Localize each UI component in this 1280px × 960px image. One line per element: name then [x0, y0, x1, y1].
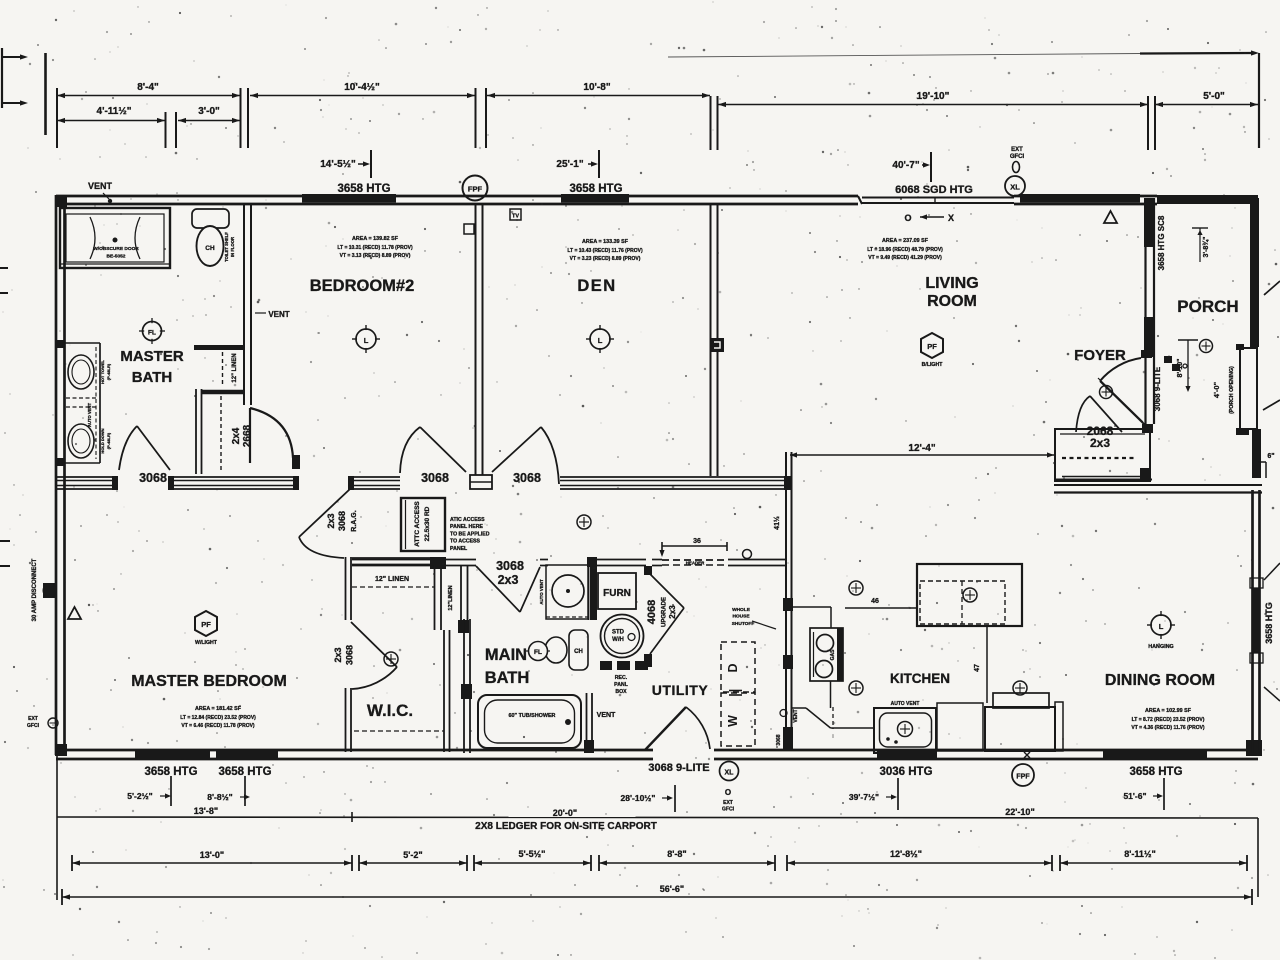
porch dim 3'-8 3/4 rotated — [1192, 227, 1208, 229]
main bath west wall — [463, 619, 465, 753]
wall triangle marker — [68, 607, 81, 619]
top dimension row 1: 19'-10" — [718, 104, 1148, 106]
svg-text:36: 36 — [693, 538, 701, 545]
svg-text:L: L — [1159, 622, 1164, 631]
porch dim 8'-10 rotated — [1178, 339, 1198, 341]
svg-text:B/LIGHT: B/LIGHT — [922, 362, 944, 368]
svg-text:VENT: VENT — [88, 181, 113, 191]
left margin cut marks — [0, 267, 8, 269]
porch top wall — [1157, 195, 1258, 204]
svg-text:VT = 4.36 (RECD) 11.76 (PROV): VT = 4.36 (RECD) 11.76 (PROV) — [1131, 725, 1205, 731]
master bath vanity — [99, 343, 101, 463]
svg-text:MAIN: MAIN — [485, 646, 527, 664]
utility cased opening — [644, 566, 652, 575]
svg-text:8'-10": 8'-10" — [1177, 359, 1184, 378]
svg-text:R.A.G.: R.A.G. — [351, 510, 358, 531]
svg-text:12" LINEN: 12" LINEN — [375, 576, 409, 583]
living room triangle marker — [1104, 211, 1117, 223]
svg-text:3658 HTG: 3658 HTG — [1129, 766, 1182, 778]
svg-text:AREA = 102.99 SF: AREA = 102.99 SF — [1145, 708, 1192, 714]
hall north wall band — [56, 476, 117, 478]
svg-text:30 AMP DISCONNECT: 30 AMP DISCONNECT — [32, 558, 38, 621]
svg-text:2668: 2668 — [242, 424, 253, 447]
den light symbol — [590, 329, 610, 349]
svg-text:41½: 41½ — [773, 516, 781, 530]
dim 36 header — [662, 545, 727, 547]
top dimension row 1: 8'-4" — [56, 88, 58, 148]
svg-text:L: L — [364, 336, 369, 345]
svg-text:W/OBSCURE DOOR: W/OBSCURE DOOR — [93, 246, 139, 252]
top dimension row 2: 3'-0" — [178, 120, 240, 122]
svg-text:25'-1": 25'-1" — [556, 159, 583, 170]
svg-text:TO BE APPLIED: TO BE APPLIED — [450, 531, 490, 537]
washer dryer dashed boxes — [721, 642, 755, 692]
svg-text:8'-8½": 8'-8½" — [207, 792, 232, 802]
svg-text:5'-0": 5'-0" — [1203, 91, 1225, 102]
svg-text:HOT TOWEL: HOT TOWEL — [100, 359, 105, 383]
svg-text:3658 HTG: 3658 HTG — [337, 183, 390, 195]
svg-text:DINING ROOM: DINING ROOM — [1105, 672, 1215, 689]
svg-text:5'-2½": 5'-2½" — [127, 791, 152, 801]
bedroom2 door swing — [400, 427, 420, 473]
svg-text:8'-8": 8'-8" — [667, 849, 686, 859]
porch right exterior wall — [1250, 198, 1259, 347]
svg-text:FURN: FURN — [603, 588, 631, 599]
master bath closet wall — [202, 390, 244, 395]
svg-text:6": 6" — [1267, 453, 1274, 460]
svg-text:EXT: EXT — [723, 800, 733, 806]
header dashed portion — [662, 559, 728, 561]
svg-text:XL: XL — [725, 770, 735, 777]
svg-text:TV: TV — [512, 214, 519, 220]
kitchen sink unit — [874, 708, 936, 753]
svg-text:PANEL: PANEL — [450, 546, 468, 552]
svg-text:GFCI: GFCI — [722, 807, 735, 813]
2068 door arch — [1076, 396, 1090, 432]
svg-text:BOX: BOX — [615, 689, 627, 695]
foyer door — [1100, 358, 1141, 381]
foyer/porch divider wall with windows — [1144, 198, 1146, 424]
bottom dimension row — [71, 855, 73, 871]
ledger line — [57, 817, 1258, 818]
svg-text:2X8 LEDGER FOR ON-SITE CARPORT: 2X8 LEDGER FOR ON-SITE CARPORT — [475, 821, 657, 832]
svg-text:HEADER: HEADER — [686, 561, 705, 566]
svg-text:(P-48LR): (P-48LR) — [106, 432, 111, 449]
svg-text:ATTC ACCESS: ATTC ACCESS — [414, 501, 421, 547]
svg-text:12'-8½": 12'-8½" — [890, 849, 922, 859]
master bath linen shelf — [194, 345, 243, 350]
window bar 3658 HTG den — [561, 194, 629, 203]
dining hutch — [985, 707, 1055, 751]
svg-text:22.5x30 RD: 22.5x30 RD — [424, 506, 431, 541]
FPF circle bottom — [1012, 764, 1034, 786]
svg-text:ROOM: ROOM — [927, 293, 977, 310]
svg-text:EXT: EXT — [28, 716, 38, 722]
svg-text:20'-0": 20'-0" — [553, 808, 577, 818]
svg-text:40'-7": 40'-7" — [892, 160, 919, 171]
top dimension row 1: 5'-0" — [1155, 104, 1258, 106]
svg-text:VENT: VENT — [597, 712, 616, 719]
svg-text:3068: 3068 — [345, 645, 355, 665]
svg-text:STD: STD — [612, 630, 625, 636]
svg-text:AUTO VENT: AUTO VENT — [87, 403, 92, 428]
svg-text:4'-11½": 4'-11½" — [97, 106, 132, 117]
window bar 3658 HTG dining right — [1252, 588, 1261, 653]
master bath fan FL symbol — [143, 322, 162, 341]
svg-text:47: 47 — [974, 664, 981, 672]
svg-text:W/H: W/H — [612, 637, 624, 643]
svg-text:12'-4": 12'-4" — [908, 443, 935, 454]
linen closet walls — [434, 566, 436, 630]
svg-text:W: W — [726, 715, 740, 727]
wall den / living room — [710, 205, 712, 476]
svg-text:AREA = 181.42 SF: AREA = 181.42 SF — [195, 706, 242, 712]
door jamb blocks band1 — [112, 476, 118, 490]
svg-text:PORCH: PORCH — [1177, 297, 1238, 316]
svg-text:IN FLOOR: IN FLOOR — [230, 237, 235, 257]
porch break marks right edge — [1264, 563, 1280, 580]
master bath toilet — [192, 209, 229, 228]
2068 2x3 bay — [1055, 429, 1150, 481]
svg-text:60" TUB/SHOWER: 60" TUB/SHOWER — [509, 713, 556, 719]
svg-text:3068: 3068 — [776, 734, 782, 745]
svg-text:PANEL HERE: PANEL HERE — [450, 524, 483, 530]
svg-text:2x3: 2x3 — [1090, 436, 1110, 450]
porch outlet — [1200, 340, 1213, 353]
svg-text:TO ACCESS: TO ACCESS — [450, 539, 481, 545]
svg-text:BATH: BATH — [485, 669, 530, 687]
svg-text:O: O — [725, 788, 731, 797]
svg-text:3658 HTG: 3658 HTG — [569, 183, 622, 195]
svg-text:LT = 8.72 (RECD) 23.52 (PROV): LT = 8.72 (RECD) 23.52 (PROV) — [1132, 717, 1205, 723]
svg-text:GFCI: GFCI — [1010, 154, 1025, 160]
svg-text:XL: XL — [1010, 183, 1020, 192]
window bar 3658 HTG bedroom2 — [302, 194, 396, 203]
bath/utility north wall band — [352, 559, 476, 561]
svg-text:FPF: FPF — [1016, 774, 1030, 781]
svg-text:(P-48LR): (P-48LR) — [106, 363, 111, 380]
svg-text:VENT: VENT — [268, 310, 289, 319]
svg-text:VT = 9.49 (RECD) 41.29 (PROV): VT = 9.49 (RECD) 41.29 (PROV) — [868, 255, 942, 261]
svg-text:4068: 4068 — [646, 600, 658, 624]
double tick at 240/248 — [240, 88, 242, 148]
svg-text:12"LINEN: 12"LINEN — [448, 585, 454, 610]
svg-text:DEN: DEN — [577, 277, 616, 295]
dining window leader lower — [1264, 687, 1280, 701]
FPF symbol on top wall — [463, 176, 488, 201]
svg-text:W/LIGHT: W/LIGHT — [195, 640, 218, 646]
svg-text:13'-0": 13'-0" — [200, 850, 224, 860]
window bar 3658 HTG master bedroom 2 — [216, 749, 278, 759]
wall right of tub — [586, 693, 588, 753]
svg-text:8'-11½": 8'-11½" — [1124, 849, 1155, 859]
svg-text:W.I.C.: W.I.C. — [367, 701, 413, 720]
svg-text:22'-10": 22'-10" — [1005, 807, 1034, 817]
svg-text:AREA = 139.82 SF: AREA = 139.82 SF — [352, 236, 399, 242]
window sill marks dining right — [1250, 578, 1263, 588]
svg-text:3068: 3068 — [513, 471, 541, 485]
svg-text:O: O — [904, 213, 911, 223]
water heater STD W/H — [601, 615, 644, 658]
svg-text:REC.: REC. — [615, 675, 628, 681]
window bar 3658 HTG dining — [1103, 749, 1207, 759]
svg-text:UTILITY: UTILITY — [652, 682, 709, 698]
svg-text:VT = 3.23 (RECD) 8.89 (PROV): VT = 3.23 (RECD) 8.89 (PROV) — [570, 256, 641, 262]
svg-text:10'-8": 10'-8" — [583, 82, 610, 93]
porch right wall lower — [1252, 429, 1261, 478]
svg-text:FL: FL — [148, 330, 156, 337]
den door swing — [492, 427, 541, 472]
utility back door swing — [645, 707, 686, 750]
top dimension row 1: 10'-4 1/2" — [250, 95, 475, 97]
svg-text:WHOLE: WHOLE — [732, 607, 751, 613]
svg-text:BEDROOM#2: BEDROOM#2 — [310, 277, 415, 295]
master bedroom PF hexagon — [195, 611, 217, 636]
svg-text:13'-8": 13'-8" — [194, 806, 218, 816]
water heater platform bar — [600, 661, 648, 670]
bottom-right corner block — [1246, 740, 1262, 756]
kitchen island counter — [917, 564, 1022, 626]
outlet hall — [577, 515, 591, 529]
main bath door swing V — [476, 566, 520, 612]
porch break mark upper — [1264, 281, 1280, 295]
kitchen outlets — [849, 581, 863, 595]
master bath door swing — [119, 426, 137, 470]
top dimension row 2: 4'-11 1/2" — [57, 120, 165, 122]
svg-text:AREA = 237.09 SF: AREA = 237.09 SF — [882, 238, 929, 244]
svg-text:56'-6": 56'-6" — [660, 884, 684, 894]
left exterior wall — [55, 195, 58, 755]
svg-text:UPGRADE: UPGRADE — [662, 597, 668, 627]
main bath vanity — [546, 565, 588, 619]
svg-text:GFCI: GFCI — [27, 723, 40, 729]
svg-text:5'-2": 5'-2" — [403, 850, 422, 860]
window bar right section — [1020, 194, 1140, 203]
svg-text:3068: 3068 — [421, 471, 449, 485]
svg-text:3068: 3068 — [496, 559, 524, 573]
master bedroom door swing from hall — [299, 489, 350, 537]
outlet box den/living wall — [710, 338, 724, 352]
svg-text:6068 SGD HTG: 6068 SGD HTG — [895, 184, 973, 196]
vent rotated label utility wall — [780, 710, 787, 717]
porch light cluster — [1164, 356, 1172, 363]
XL circle and EXT GFCI bottom — [720, 762, 739, 781]
svg-text:2x3: 2x3 — [668, 605, 677, 619]
svg-text:(PORCH OPENING): (PORCH OPENING) — [1229, 366, 1235, 414]
sliding glass door 6068 top wall — [858, 196, 862, 204]
top-right margin line with arrow — [668, 54, 1140, 58]
dining hanging light symbol — [1151, 615, 1171, 635]
svg-text:D: D — [726, 663, 740, 672]
svg-text:AUTO VENT: AUTO VENT — [891, 701, 920, 707]
wall utility / kitchen — [785, 452, 787, 750]
main bath fan FL — [529, 642, 548, 661]
svg-text:PF: PF — [201, 620, 211, 629]
WIC door swing — [351, 622, 397, 667]
top dimension row 1: 10'-8" — [487, 95, 710, 97]
svg-text:FL: FL — [534, 649, 542, 656]
svg-text:LT = 10.43 (RECD) 11.76 (PROV): LT = 10.43 (RECD) 11.76 (PROV) — [567, 248, 643, 254]
shower master bath — [60, 208, 170, 268]
svg-text:X: X — [948, 213, 954, 223]
svg-text:SHUTOFF: SHUTOFF — [732, 621, 755, 627]
svg-text:LT = 18.96 (RECD) 48.79 (PROV): LT = 18.96 (RECD) 48.79 (PROV) — [867, 247, 943, 253]
wall bath/furnace — [588, 565, 590, 620]
svg-text:19'-10": 19'-10" — [917, 91, 950, 102]
svg-text:3068: 3068 — [337, 511, 347, 531]
main bath toilet — [569, 630, 588, 670]
kitchen counter top edge — [792, 606, 832, 608]
svg-text:PF: PF — [927, 342, 937, 351]
svg-text:2x3: 2x3 — [498, 573, 519, 587]
svg-text:ATIC ACCESS: ATIC ACCESS — [450, 517, 485, 523]
svg-text:14'-5½": 14'-5½" — [320, 159, 356, 170]
stove — [810, 628, 843, 681]
svg-text:28'-10½": 28'-10½" — [621, 793, 656, 803]
outlet circle near header — [743, 550, 752, 559]
svg-text:GAS: GAS — [830, 649, 836, 661]
svg-text:3036 HTG: 3036 HTG — [879, 766, 932, 778]
svg-text:MASTER BEDROOM: MASTER BEDROOM — [131, 673, 287, 690]
furnace FURN box — [598, 573, 636, 609]
svg-text:51'-6": 51'-6" — [1123, 791, 1146, 801]
svg-text:3068 9-LITE: 3068 9-LITE — [1153, 366, 1162, 411]
tub 60 inch — [478, 695, 581, 748]
svg-text:8'-4": 8'-4" — [137, 82, 159, 93]
svg-text:CH: CH — [205, 245, 215, 252]
top-left margin bracket arrows — [1, 48, 3, 108]
svg-text:HANGING: HANGING — [1148, 644, 1173, 650]
svg-text:MASTER: MASTER — [120, 348, 184, 365]
dining right exterior wall — [1251, 490, 1254, 753]
svg-text:4'-0": 4'-0" — [1212, 381, 1221, 398]
svg-text:10'-4½": 10'-4½" — [344, 82, 380, 93]
living PF hexagon — [921, 333, 943, 358]
dim 12'-4 living room width — [790, 454, 1054, 456]
window bar 3036 HTG kitchen — [877, 749, 937, 759]
svg-text:EXT: EXT — [1011, 147, 1023, 153]
svg-text:LIVING: LIVING — [925, 275, 978, 292]
closet door 2668 bedroom2 — [249, 408, 251, 463]
svg-text:BE-5052: BE-5052 — [107, 254, 126, 260]
svg-text:PANL: PANL — [614, 682, 629, 688]
svg-text:FOYER: FOYER — [1074, 347, 1126, 364]
svg-text:39'-7½": 39'-7½" — [849, 792, 879, 802]
porch step mark bottom right — [1258, 461, 1266, 463]
WIC walls — [345, 557, 347, 620]
svg-text:3068: 3068 — [139, 471, 167, 485]
svg-text:3658 HTG: 3658 HTG — [1264, 602, 1274, 644]
counter below stove — [830, 681, 832, 708]
svg-text:TOILET SHELF: TOILET SHELF — [224, 232, 229, 262]
WIC shelf dashed — [354, 730, 444, 732]
svg-text:LT = 10.31 (RECD) 11.78 (PROV): LT = 10.31 (RECD) 11.78 (PROV) — [337, 245, 413, 251]
porch bottom band — [1054, 479, 1152, 481]
svg-text:3068 9-LITE: 3068 9-LITE — [648, 762, 709, 774]
wall master bath / bedroom2 — [243, 205, 245, 405]
svg-text:LT = 12.84 (RECD) 23.52 (PROV): LT = 12.84 (RECD) 23.52 (PROV) — [180, 715, 256, 721]
svg-text:46: 46 — [871, 598, 879, 605]
svg-text:3'-8¾": 3'-8¾" — [1202, 237, 1210, 258]
svg-text:AREA = 133.39 SF: AREA = 133.39 SF — [582, 239, 629, 245]
svg-text:HOLD DOWN: HOLD DOWN — [100, 428, 105, 453]
svg-text:VT = 3.13 (RECD) 8.89 (PROV): VT = 3.13 (RECD) 8.89 (PROV) — [340, 253, 411, 259]
porch opening — [1240, 348, 1257, 429]
top exterior wall — [56, 195, 858, 198]
svg-text:VT = 6.46 (RECD) 11.78 (PROV): VT = 6.46 (RECD) 11.78 (PROV) — [181, 723, 255, 729]
svg-text:KITCHEN: KITCHEN — [890, 671, 950, 686]
svg-text:3'-0": 3'-0" — [198, 106, 220, 117]
wall bedroom2 / den — [475, 205, 477, 475]
window bar 3658 HTG master bedroom 1 — [135, 749, 210, 759]
svg-text:AUTO VENT: AUTO VENT — [539, 579, 544, 605]
svg-text:BATH: BATH — [132, 369, 173, 386]
outlet box bedroom2 — [464, 224, 474, 234]
door jamb box between bedroom2/den doors — [470, 475, 492, 489]
wall tick near FPF — [1024, 752, 1030, 758]
dim 47 line island to counter — [986, 626, 988, 703]
overall dim 56'-6 — [61, 889, 63, 905]
TV outlet box den wall — [510, 209, 521, 220]
svg-text:2x3: 2x3 — [326, 513, 336, 528]
svg-text:HOUSE: HOUSE — [732, 614, 750, 620]
attic access box — [401, 498, 445, 551]
bedroom2 light symbol — [356, 329, 376, 349]
svg-text:2x3: 2x3 — [333, 647, 343, 662]
counter right of sink — [937, 703, 983, 751]
svg-text:12" LINEN: 12" LINEN — [232, 353, 238, 382]
svg-text:3658 HTG SC8: 3658 HTG SC8 — [1157, 215, 1166, 270]
svg-text:5'-5½": 5'-5½" — [519, 849, 546, 859]
svg-text:2x4: 2x4 — [231, 427, 242, 444]
svg-text:FPF: FPF — [468, 185, 483, 194]
bottom exterior wall — [56, 749, 653, 752]
svg-text:L: L — [598, 336, 603, 345]
svg-text:VENT: VENT — [793, 709, 799, 722]
top wall right of slider — [1014, 195, 1157, 198]
